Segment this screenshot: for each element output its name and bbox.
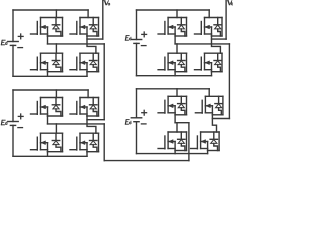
bridge A2 right-leg top drain drop bbox=[87, 90, 89, 98]
label E_d of bridge B2 bbox=[125, 119, 130, 124]
bridge B2 right-leg top drain drop bbox=[208, 89, 210, 97]
transistor cell bridge A1 S3 bottom-left (MOSFET + antiparallel diode) bbox=[31, 53, 63, 71]
bridge A2 bottom DC rail bbox=[13, 155, 87, 157]
bridge A1 left-leg top drain drop bbox=[55, 10, 57, 18]
bridge B2 right-leg midpoint rail with hook bbox=[212, 115, 216, 132]
transistor cell bridge B2 S1 top-left (MOSFET + antiparallel diode) bbox=[158, 96, 186, 115]
bridge B1 right-leg bottom source lead bbox=[211, 72, 213, 76]
wire B1 left-leg midpoint long wire bbox=[175, 43, 229, 45]
transistor cell bridge B2 S2 top-right (MOSFET + antiparallel diode) bbox=[195, 96, 223, 115]
label E_d of bridge A1 bbox=[1, 40, 6, 45]
bridge B1 left rail upper bbox=[136, 10, 138, 40]
wire neutral bus between phase a and phase b bbox=[104, 160, 189, 162]
DC source E_d of bridge B2 : battery symbol with + and - bbox=[131, 110, 146, 124]
node label V_b bbox=[227, 0, 232, 5]
bridge A2 left rail upper bbox=[12, 90, 14, 122]
wire Va output riser bbox=[102, 0, 104, 39]
bridge B1 right-leg top drain drop bbox=[208, 10, 210, 18]
bridge B2 left rail upper bbox=[136, 89, 138, 118]
bridge B1 left-leg bottom drain drop bbox=[176, 44, 178, 53]
bridge B2 left rail lower bbox=[136, 122, 138, 154]
bridge A1 right-leg midpoint rail with hook bbox=[87, 36, 96, 53]
bridge A2 left-leg top drain drop bbox=[55, 90, 57, 98]
bridge B1 right-leg midpoint rail with hook bbox=[212, 36, 221, 53]
transistor cell bridge A2 S2 top-right (MOSFET + antiparallel diode) bbox=[70, 98, 99, 117]
bridge A1 left rail upper bbox=[12, 10, 14, 42]
wire A2 neutral descent bbox=[103, 124, 105, 161]
bridge A2 right-leg bottom source lead bbox=[86, 152, 88, 157]
bridge A2 left rail lower bbox=[12, 125, 14, 156]
bridge B2 left-leg bottom drain drop bbox=[176, 123, 178, 132]
bridge A1 left-leg bottom source lead bbox=[47, 72, 49, 77]
bridge A1 left-leg midpoint lead bbox=[47, 36, 49, 44]
bridge B1 left-leg midpoint lead bbox=[174, 36, 176, 44]
transistor cell bridge B1 S4 bottom-right (MOSFET + antiparallel diode) bbox=[195, 53, 223, 71]
transistor cell bridge B1 S1 top-left (MOSFET + antiparallel diode) bbox=[158, 18, 186, 37]
DC source E_d of bridge B1 : battery symbol with + and - bbox=[131, 32, 146, 46]
DC source E_d of bridge A2 : battery symbol with + and - bbox=[8, 114, 23, 128]
wire A2 right-leg midpoint to cascade bbox=[87, 119, 104, 121]
bridge B1 left-leg top drain drop bbox=[176, 10, 178, 18]
transistor cell bridge A2 S1 top-left (MOSFET + antiparallel diode) bbox=[31, 98, 63, 117]
wire A1 left-leg midpoint long wire bbox=[48, 43, 105, 45]
wire B2 neutral descent bbox=[188, 123, 190, 161]
bridge B2 left-leg top drain drop bbox=[176, 89, 178, 97]
transistor cell bridge B1 S3 bottom-left (MOSFET + antiparallel diode) bbox=[158, 53, 186, 71]
bridge A1 right-leg top drain drop bbox=[87, 10, 89, 18]
wire cascade B1 to B2 bbox=[228, 44, 230, 119]
transistor cell bridge B1 S2 top-right (MOSFET + antiparallel diode) bbox=[195, 18, 223, 37]
bridge A2 left-leg bottom drain drop bbox=[55, 124, 57, 133]
transistor cell bridge A2 S3 bottom-left (MOSFET + antiparallel diode) bbox=[31, 133, 63, 152]
bridge A2 top DC rail bbox=[13, 89, 88, 91]
transistor cell bridge A1 S4 bottom-right (MOSFET + antiparallel diode) bbox=[70, 53, 99, 71]
bridge A1 left-leg bottom drain drop bbox=[55, 44, 57, 53]
transistor cell bridge B2 S4 bottom-right (MOSFET + antiparallel diode) bbox=[191, 132, 220, 151]
DC source E_d of bridge A1 : battery symbol with + and - bbox=[8, 34, 23, 48]
bridge A2 left-leg bottom source lead bbox=[47, 152, 49, 157]
bridge B2 left-leg bottom source lead bbox=[174, 151, 176, 154]
bridge B2 bottom DC rail bbox=[137, 153, 208, 155]
wire Va tap from A1 right-leg midpoint bbox=[87, 38, 103, 40]
bridge A1 right-leg bottom source lead bbox=[86, 72, 88, 77]
transistor cell bridge A1 S1 top-left (MOSFET + antiparallel diode) bbox=[31, 18, 63, 37]
bridge A1 left rail lower bbox=[12, 45, 14, 76]
bridge B2 left-leg midpoint lead bbox=[174, 115, 176, 123]
node label V_a bbox=[104, 0, 109, 5]
bridge B1 left-leg bottom source lead bbox=[174, 72, 176, 76]
bridge A1 top DC rail bbox=[13, 9, 88, 11]
wire B2 left-leg midpoint long wire bbox=[175, 122, 189, 124]
transistor cell bridge B2 S3 bottom-left (MOSFET + antiparallel diode) bbox=[158, 132, 186, 151]
label E_d of bridge B1 bbox=[125, 35, 130, 40]
bridge B2 top DC rail bbox=[137, 88, 210, 90]
bridge B1 left rail lower bbox=[136, 43, 138, 75]
wire A2 left-leg midpoint long wire bbox=[48, 123, 105, 125]
bridge A2 right-leg midpoint rail with hook bbox=[87, 116, 96, 133]
transistor cell bridge A1 S2 top-right (MOSFET + antiparallel diode) bbox=[70, 18, 99, 37]
wire cascade A1 to A2 bbox=[103, 44, 105, 120]
wire Vb output riser bbox=[225, 0, 227, 39]
label E_d of bridge A2 bbox=[1, 120, 6, 125]
transistor cell bridge A2 S4 bottom-right (MOSFET + antiparallel diode) bbox=[70, 133, 99, 152]
wire Vb tap from B1 right-leg midpoint bbox=[212, 38, 227, 40]
bridge A1 bottom DC rail bbox=[13, 75, 87, 77]
bridge A2 left-leg midpoint lead bbox=[47, 116, 49, 124]
bridge B1 bottom DC rail bbox=[137, 75, 212, 77]
bridge B2 right-leg bottom source lead bbox=[207, 151, 209, 154]
wire B2 right-leg midpoint to cascade bbox=[212, 118, 229, 120]
bridge B1 top DC rail bbox=[137, 9, 210, 11]
